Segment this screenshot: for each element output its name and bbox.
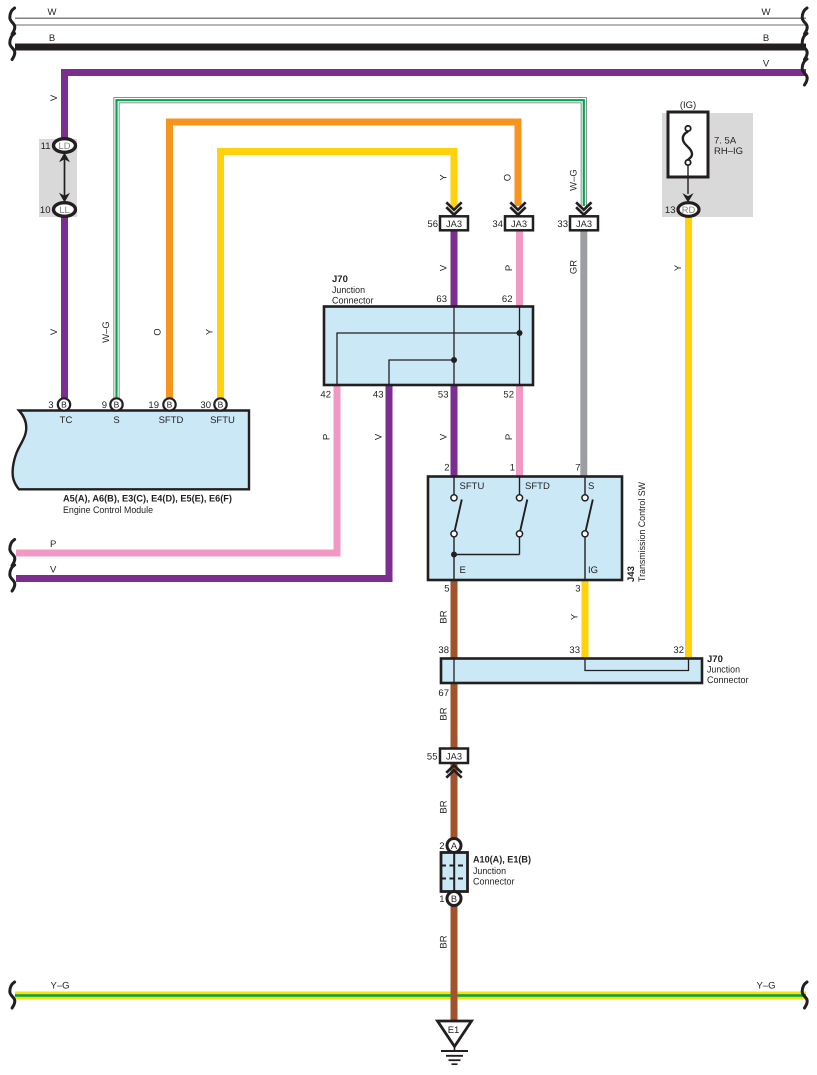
svg-text:W: W (762, 7, 771, 18)
svg-text:1: 1 (510, 463, 515, 474)
svg-text:LL: LL (59, 205, 69, 215)
svg-text:55: 55 (427, 752, 438, 763)
ECM pin 3 circle B (58, 398, 70, 410)
svg-text:GR: GR (568, 260, 579, 274)
junction connector A10/E1 pin 2 circle A (447, 839, 461, 853)
svg-text:56: 56 (427, 219, 438, 230)
svg-text:3: 3 (575, 584, 580, 595)
ECM pin 9 circle B (110, 398, 122, 410)
svg-text:IG: IG (588, 565, 598, 576)
svg-text:V: V (49, 94, 60, 101)
label J70 lower (707, 654, 749, 686)
svg-text:10: 10 (40, 205, 51, 216)
svg-text:O: O (503, 174, 514, 181)
svg-text:Y–G: Y–G (756, 981, 775, 992)
ECM pin 30 circle B (214, 398, 226, 410)
svg-text:BR: BR (439, 800, 450, 813)
svg-text:11: 11 (41, 141, 51, 152)
wire Y-G horizontal (15, 992, 806, 1000)
svg-text:B: B (61, 400, 67, 410)
junction connector J70 box (upper) (324, 307, 533, 386)
connector JA3 pin 55 (440, 749, 468, 778)
svg-text:42: 42 (320, 390, 331, 401)
wire B horizontal (15, 44, 806, 51)
svg-text:V: V (50, 565, 57, 576)
break symbol W left (10, 8, 15, 34)
label J70 upper (332, 274, 374, 307)
svg-text:Junction: Junction (707, 665, 740, 676)
svg-text:9: 9 (102, 400, 107, 411)
svg-text:Y: Y (673, 264, 684, 271)
J70 internal bus 38 to 67 (453, 659, 455, 682)
svg-text:B: B (451, 894, 457, 904)
svg-text:Y: Y (205, 328, 216, 335)
connector block background LD/LL (39, 139, 77, 217)
label A10/E1 name (473, 855, 531, 888)
transmission control switch J43 box (428, 477, 622, 581)
wire BR from junction connector pin 1 to ground E1 (451, 905, 458, 1021)
connector JA3 pin 33 (570, 202, 598, 230)
svg-text:33: 33 (569, 645, 580, 656)
svg-text:J70: J70 (707, 654, 723, 665)
svg-text:J70: J70 (332, 274, 348, 285)
break symbol Y-G left (10, 982, 15, 1008)
svg-text:SFTU: SFTU (210, 415, 235, 426)
junction dot E (451, 552, 457, 558)
svg-text:62: 62 (502, 294, 513, 305)
switch SFTU (451, 477, 462, 580)
J70 internal bus 62 to 52 (519, 307, 521, 384)
svg-text:V: V (439, 433, 450, 440)
break symbol V left (10, 565, 15, 591)
svg-text:J43: J43 (626, 566, 637, 582)
svg-text:Junction: Junction (473, 866, 506, 877)
svg-text:30: 30 (200, 400, 211, 411)
ECM pin 19 circle B (163, 398, 175, 410)
switch SFTD (454, 477, 527, 555)
svg-text:P: P (50, 539, 56, 550)
junction dot 42-62 (517, 330, 523, 336)
wire P from J70 pin 42 to left edge (16, 384, 337, 553)
svg-text:P: P (504, 434, 515, 440)
svg-text:JA3: JA3 (576, 219, 592, 229)
svg-text:19: 19 (148, 400, 159, 411)
svg-text:A5(A), A6(B), E3(C), E4(D), E5: A5(A), A6(B), E3(C), E4(D), E5(E), E6(F) (63, 494, 232, 505)
svg-text:52: 52 (503, 390, 514, 401)
svg-text:SFTD: SFTD (159, 415, 184, 426)
wire W horizontal (15, 18, 806, 25)
svg-text:P: P (322, 434, 333, 440)
wire O from ECM pin 19 to connector JA3 pin 34 (170, 122, 519, 398)
svg-text:P: P (504, 265, 515, 271)
junction connector J70 box (lower) (441, 659, 702, 684)
break symbol W right (802, 8, 807, 34)
svg-text:B: B (218, 400, 224, 410)
wire V from right edge to connector LD pin 11 (65, 73, 807, 142)
svg-text:BR: BR (439, 610, 450, 623)
svg-text:JA3: JA3 (446, 752, 462, 762)
junction connector A10/E1 pin 1 circle B (447, 892, 461, 906)
shield arrow between LD and LL (59, 153, 70, 203)
svg-text:5: 5 (444, 584, 449, 595)
svg-text:W–G: W–G (568, 169, 579, 191)
engine control module box (13, 411, 249, 490)
svg-text:LD: LD (59, 141, 71, 151)
svg-text:Junction: Junction (332, 285, 365, 296)
wire V from J70 pin 53 to J43 pin 2 (451, 384, 458, 477)
svg-text:E: E (460, 565, 466, 576)
J70 internal branch pin 43 (389, 360, 454, 384)
svg-text:Transmission Control SW: Transmission Control SW (637, 482, 648, 582)
J70 internal branch 33 to 32 (585, 659, 689, 671)
fuse block background (662, 113, 753, 217)
svg-text:SFTD: SFTD (525, 481, 550, 492)
wire P from JA3 pin 34 to J70 pin 62 (516, 229, 523, 307)
svg-text:Y: Y (439, 174, 450, 181)
svg-text:B: B (167, 400, 173, 410)
svg-text:Connector: Connector (707, 675, 749, 686)
svg-text:Connector: Connector (332, 296, 374, 307)
svg-text:V: V (763, 59, 770, 70)
svg-text:W–G: W–G (101, 321, 112, 343)
svg-text:33: 33 (557, 219, 568, 230)
label fuse rating (714, 136, 743, 158)
wire V from JA3 pin 56 to J70 pin 63 (451, 229, 458, 307)
svg-text:B: B (114, 400, 120, 410)
connector LL pin 10 (54, 203, 76, 217)
svg-text:V: V (439, 264, 450, 271)
wire BR from JA3 pin 55 to junction connector pin 2 (451, 762, 458, 839)
svg-text:3: 3 (48, 400, 53, 411)
break symbol B right (802, 34, 807, 60)
svg-text:1: 1 (439, 894, 444, 905)
svg-text:W: W (48, 7, 57, 18)
svg-text:13: 13 (665, 205, 676, 216)
junction dot 43-63 (451, 357, 457, 363)
svg-text:SFTU: SFTU (460, 481, 485, 492)
svg-text:53: 53 (438, 390, 449, 401)
svg-text:32: 32 (673, 645, 684, 656)
svg-text:B: B (49, 33, 55, 44)
wire GR from JA3 pin 33 to J43 pin 7 (580, 229, 587, 477)
wire BR from J70 pin 67 to JA3 pin 55 (451, 682, 458, 749)
svg-text:RH–IG: RH–IG (714, 146, 743, 157)
fuse 7.5A RH-IG box (668, 112, 708, 177)
svg-text:TC: TC (60, 415, 73, 426)
svg-text:34: 34 (492, 219, 503, 230)
svg-text:JA3: JA3 (446, 219, 462, 229)
wire W-G from ECM pin 9 to connector JA3 pin 33 (117, 100, 584, 398)
svg-text:V: V (49, 328, 60, 335)
switch S (582, 477, 593, 580)
svg-text:38: 38 (438, 645, 449, 656)
svg-text:E1: E1 (448, 1025, 460, 1036)
junction connector A10/E1 box (441, 853, 468, 892)
break symbol V right (802, 59, 807, 85)
svg-text:O: O (153, 328, 164, 335)
svg-text:S: S (113, 415, 119, 426)
svg-text:7: 7 (575, 463, 580, 474)
svg-text:B: B (763, 33, 769, 44)
svg-text:2: 2 (439, 841, 444, 852)
connector RD pin 13 (678, 203, 699, 217)
svg-text:67: 67 (438, 688, 449, 699)
svg-text:(IG): (IG) (680, 100, 696, 111)
connector LD pin 11 (54, 139, 76, 153)
wire P from J70 pin 52 to J43 pin 1 (516, 384, 523, 477)
wire Y from J43 pin 3 to J70 pin 33 (582, 579, 589, 659)
svg-text:BR: BR (439, 935, 450, 948)
svg-text:S: S (588, 481, 594, 492)
svg-text:V: V (374, 433, 385, 440)
connector JA3 pin 34 (505, 202, 533, 230)
wire Y from fuse RH-IG to J70 pin 32 (685, 216, 692, 659)
svg-text:2: 2 (444, 463, 449, 474)
wire V from J70 pin 43 to left edge (16, 384, 389, 579)
svg-text:BR: BR (439, 707, 450, 720)
break symbol P left (10, 540, 15, 566)
J70 internal bus 63 to 53 (453, 307, 455, 384)
svg-text:JA3: JA3 (511, 219, 527, 229)
fuse output line with arrow (682, 166, 693, 203)
svg-text:A10(A), E1(B): A10(A), E1(B) (473, 855, 531, 866)
connector JA3 pin 56 (440, 202, 468, 230)
break symbol Y-G right (802, 982, 807, 1008)
svg-text:RD: RD (682, 205, 696, 215)
svg-text:A: A (451, 841, 458, 851)
wire Y from ECM pin 30 to connector JA3 pin 56 (221, 152, 455, 399)
J70 internal branch pin 42 (337, 333, 520, 384)
svg-text:63: 63 (436, 294, 447, 305)
svg-text:Y–G: Y–G (50, 981, 69, 992)
wire V from connector LL pin 10 to ECM pin 3 (61, 214, 68, 398)
svg-text:Y: Y (570, 613, 581, 620)
wire BR from J43 pin 5 to J70 pin 38 (451, 579, 458, 659)
break symbol B left (10, 34, 15, 60)
fuse element (683, 126, 692, 165)
svg-text:7. 5A: 7. 5A (714, 136, 737, 147)
ground E1 symbol (438, 1021, 472, 1064)
svg-text:Engine Control Module: Engine Control Module (63, 505, 153, 516)
svg-text:Connector: Connector (473, 877, 515, 888)
svg-text:43: 43 (373, 390, 384, 401)
label ECM name (63, 494, 232, 517)
